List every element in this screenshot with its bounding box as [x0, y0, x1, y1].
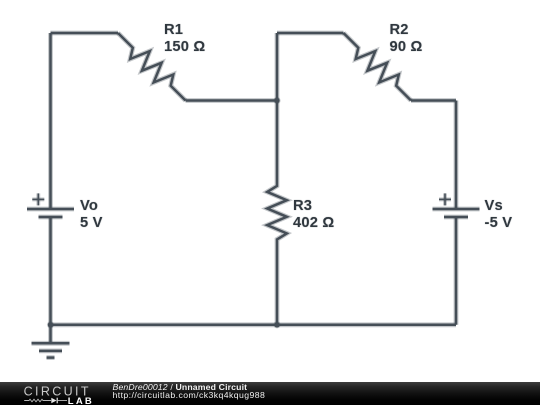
wire battery Vs to bottom rail [454, 217, 459, 325]
logo squiggle wire with resistor zigzag [24, 399, 51, 402]
footer bar [0, 382, 540, 405]
svg-text:LAB: LAB [68, 396, 93, 405]
label Vo / 5 V [80, 198, 103, 233]
wire left vertical (top rail to battery Vo) [48, 33, 53, 209]
logo squiggle tail wire [57, 400, 67, 402]
wire middle vertical up (node to top rail) [275, 33, 280, 101]
label R1 / 150 Ω [164, 22, 205, 57]
wire battery Vo to bottom rail [48, 217, 53, 325]
ground symbol [32, 343, 70, 357]
logo diode triangle [51, 398, 56, 404]
label Vs / -5 V [485, 198, 513, 233]
label R2 / 90 Ω [390, 22, 423, 57]
battery Vs plates [433, 209, 480, 217]
logo diode bar [56, 398, 58, 404]
wire right vertical (corner to battery Vs) [454, 101, 459, 210]
wire R2 to right corner [411, 98, 456, 103]
node junction dot bottom left (ground node) [47, 321, 54, 328]
node junction dot bottom middle [273, 321, 280, 328]
wire ground stem [48, 325, 53, 344]
battery Vs plus sign [439, 193, 451, 205]
battery Vo plates [27, 209, 74, 217]
resistor R2 [344, 33, 412, 101]
resistor R3 (middle node to bottom rail) [267, 101, 287, 325]
wire top-left horizontal [51, 31, 119, 36]
wire top-middle horizontal [277, 31, 344, 36]
node junction dot middle [273, 97, 280, 104]
resistor R1 [118, 33, 186, 101]
wire bottom rail [51, 322, 457, 327]
CircuitLab logo [0, 382, 110, 405]
label R3 / 402 Ω [293, 198, 334, 233]
footer credit text [113, 384, 266, 400]
battery Vo plus sign [32, 193, 44, 205]
wire R1 to middle node [186, 98, 278, 103]
